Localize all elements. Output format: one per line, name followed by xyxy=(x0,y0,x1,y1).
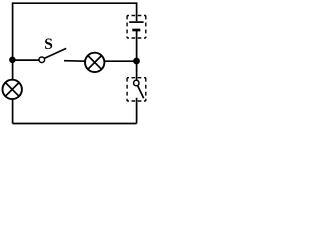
dashed box around battery xyxy=(127,16,146,39)
wire right side (node B to switch 2) xyxy=(136,61,138,80)
wire left side lower (lamp L2 to bottom corner) xyxy=(12,100,14,124)
wire right side (battery to node B) xyxy=(136,31,138,61)
lamp L1 (middle) xyxy=(85,53,104,72)
wire (switch S to lamp L1) xyxy=(64,60,85,63)
lamp L2 (left) xyxy=(3,80,22,99)
node B junction dot xyxy=(133,58,140,65)
node A junction dot xyxy=(9,57,16,64)
wire left side (node A to lamp L2 top) xyxy=(12,60,14,79)
wire right side lower (switch 2 to bottom corner) xyxy=(136,98,138,124)
battery cell short plate (-) xyxy=(132,29,140,32)
battery cell long plate (+) xyxy=(129,21,143,23)
wire (lamp L1 to node B) xyxy=(105,60,137,62)
switch S blade xyxy=(44,48,66,58)
switch 2 pivot circle xyxy=(134,80,139,85)
switch S pivot circle xyxy=(39,57,45,63)
wire bottom side xyxy=(13,123,137,125)
wire middle branch (node A to switch S) xyxy=(13,59,39,61)
svg-text:S: S xyxy=(44,36,53,53)
wire left side upper (top corner to node A) xyxy=(12,2,14,60)
switch 2 blade xyxy=(138,85,144,98)
dashed box around switch 2 xyxy=(127,78,146,101)
wire top side xyxy=(13,2,137,4)
wire right side upper (top corner to battery) xyxy=(136,2,138,21)
